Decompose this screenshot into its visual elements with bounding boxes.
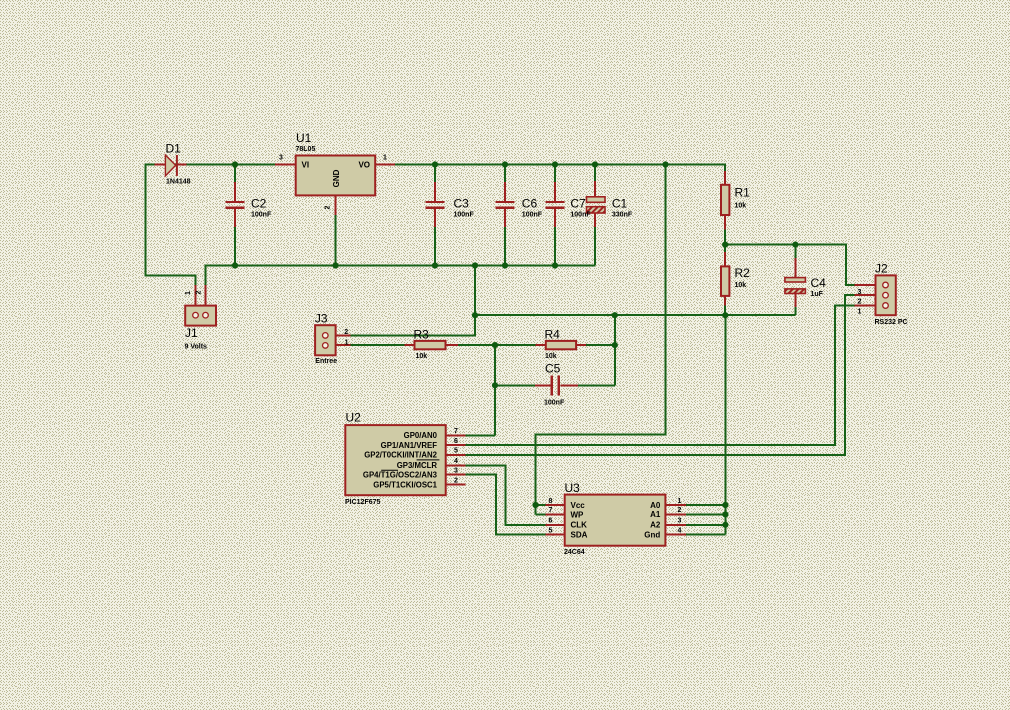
- svg-text:GP2/T0CKI/INT/AN2: GP2/T0CKI/INT/AN2: [364, 451, 437, 460]
- svg-text:D1: D1: [166, 142, 182, 156]
- svg-text:C5: C5: [545, 362, 561, 376]
- svg-text:2: 2: [325, 205, 332, 209]
- svg-text:2: 2: [678, 507, 682, 514]
- svg-text:C4: C4: [811, 276, 827, 290]
- svg-text:U3: U3: [565, 481, 581, 495]
- svg-text:R1: R1: [735, 186, 751, 200]
- svg-text:GP1/AN1/VREF: GP1/AN1/VREF: [381, 441, 438, 450]
- svg-text:1: 1: [678, 498, 682, 505]
- svg-text:WP: WP: [571, 510, 585, 519]
- svg-text:100nF: 100nF: [544, 400, 565, 407]
- svg-text:24C64: 24C64: [564, 549, 585, 556]
- svg-text:1: 1: [858, 308, 862, 315]
- svg-text:U1: U1: [296, 131, 312, 145]
- svg-text:6: 6: [454, 438, 458, 445]
- svg-text:PIC12F675: PIC12F675: [345, 499, 381, 506]
- svg-text:Entree: Entree: [315, 358, 337, 365]
- svg-text:GND: GND: [332, 169, 341, 187]
- svg-text:1: 1: [185, 291, 192, 295]
- svg-text:GP4/T1G/OSC2/AN3: GP4/T1G/OSC2/AN3: [363, 470, 438, 479]
- svg-text:5: 5: [549, 527, 553, 534]
- svg-text:C3: C3: [454, 197, 470, 211]
- svg-text:Gnd: Gnd: [644, 530, 660, 539]
- svg-text:100nF: 100nF: [251, 212, 272, 219]
- svg-text:GP3/MCLR: GP3/MCLR: [397, 461, 438, 470]
- svg-text:4: 4: [454, 458, 458, 465]
- svg-text:2: 2: [858, 299, 862, 306]
- svg-text:C6: C6: [522, 197, 538, 211]
- svg-text:4: 4: [678, 527, 682, 534]
- svg-text:78L05: 78L05: [296, 146, 316, 153]
- svg-text:2: 2: [344, 329, 348, 336]
- svg-text:RS232 PC: RS232 PC: [875, 319, 908, 326]
- svg-text:A2: A2: [650, 521, 661, 530]
- svg-text:10k: 10k: [735, 282, 747, 289]
- svg-text:U2: U2: [346, 411, 362, 425]
- svg-text:330nF: 330nF: [612, 212, 633, 219]
- svg-text:10k: 10k: [545, 353, 557, 360]
- svg-text:SDA: SDA: [571, 530, 588, 539]
- svg-text:C7: C7: [570, 197, 586, 211]
- svg-text:100nF: 100nF: [570, 212, 591, 219]
- svg-text:2: 2: [196, 290, 203, 294]
- svg-text:7: 7: [454, 428, 458, 435]
- svg-text:R4: R4: [545, 328, 561, 342]
- svg-text:GP5/T1CKI/OSC1: GP5/T1CKI/OSC1: [373, 480, 437, 489]
- svg-text:3: 3: [454, 467, 458, 474]
- svg-text:3: 3: [858, 289, 862, 296]
- svg-text:100nF: 100nF: [454, 212, 475, 219]
- svg-text:R3: R3: [414, 328, 430, 342]
- svg-text:C2: C2: [251, 197, 267, 211]
- svg-text:A1: A1: [650, 510, 661, 519]
- svg-text:5: 5: [454, 448, 458, 455]
- svg-text:1N4148: 1N4148: [166, 179, 191, 186]
- svg-text:R2: R2: [735, 266, 751, 280]
- svg-text:100nF: 100nF: [522, 212, 543, 219]
- svg-text:J1: J1: [185, 326, 198, 340]
- svg-text:10k: 10k: [416, 353, 428, 360]
- svg-text:2: 2: [454, 477, 458, 484]
- svg-text:CLK: CLK: [571, 521, 588, 530]
- svg-text:3: 3: [678, 518, 682, 525]
- svg-text:Vcc: Vcc: [571, 501, 586, 510]
- svg-text:1: 1: [383, 155, 387, 162]
- svg-text:1: 1: [345, 339, 349, 346]
- svg-text:1uF: 1uF: [811, 291, 824, 298]
- svg-text:GP0/AN0: GP0/AN0: [404, 431, 438, 440]
- svg-text:VI: VI: [302, 161, 310, 170]
- svg-text:8: 8: [549, 498, 553, 505]
- svg-text:6: 6: [549, 518, 553, 525]
- svg-text:9 Volts: 9 Volts: [185, 344, 208, 351]
- svg-text:10k: 10k: [735, 203, 747, 210]
- svg-text:7: 7: [549, 507, 553, 514]
- svg-text:A0: A0: [650, 501, 661, 510]
- svg-text:C1: C1: [612, 197, 628, 211]
- svg-text:J3: J3: [315, 311, 328, 325]
- svg-text:3: 3: [279, 155, 283, 162]
- svg-text:VO: VO: [358, 161, 370, 170]
- svg-text:J2: J2: [875, 262, 888, 276]
